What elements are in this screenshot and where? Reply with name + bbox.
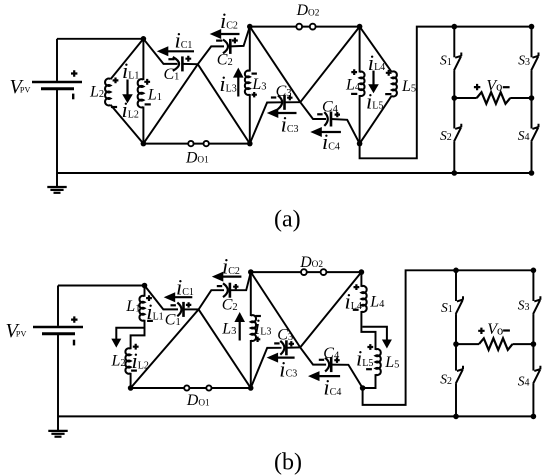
label + of C1 (b) — [186, 302, 191, 307]
inductor L3 (b) — [251, 315, 256, 341]
node T2b — [248, 269, 254, 275]
label + of Vo — [474, 84, 480, 90]
label - of C3 — [271, 96, 276, 98]
wire T3b to node Mb — [300, 272, 361, 347]
source VPV battery (b) — [33, 326, 83, 329]
wire L3 to B2b (b) — [250, 340, 252, 388]
node bridge top left — [452, 24, 458, 30]
ground — [47, 186, 66, 188]
current arrow iC4 — [320, 131, 341, 133]
label - of C1 — [168, 58, 174, 60]
switch S3 (b) — [533, 296, 540, 314]
node T1b — [142, 283, 148, 289]
wire T2 to L3 — [249, 27, 251, 72]
node bridge top right (b) — [531, 268, 537, 274]
wire B1b to C2 (b) — [131, 290, 224, 388]
inductor L4 — [360, 72, 365, 96]
node T3 — [357, 24, 363, 30]
switch S4 — [531, 124, 538, 142]
label + of C2 — [232, 38, 238, 44]
wire L1 to L2 step (b) — [131, 320, 145, 349]
current arrow iC1 (b) — [174, 296, 193, 298]
label + of L5 — [386, 70, 392, 76]
wire T3 to L5 top — [360, 27, 392, 73]
wire bottom rail (a) — [57, 172, 532, 174]
label + of C2 (b) — [233, 284, 238, 289]
resistor Vo load (b) — [479, 338, 513, 350]
current arrow iC3 — [277, 112, 297, 114]
switch S2 lower lead (b) — [455, 384, 457, 417]
wire C3 to Mb (b) — [286, 346, 300, 348]
current arrow iL3 — [237, 76, 239, 96]
diode Do2 contacts (b) — [301, 269, 307, 275]
wire mid rail right — [510, 97, 531, 99]
switch S2 upper lead (b) — [455, 344, 457, 371]
label + of C4 (b) — [334, 358, 339, 363]
label - of L2 (b) — [131, 370, 137, 372]
label - of L1 — [145, 103, 151, 105]
label + of C3 — [287, 95, 292, 100]
capacitor C4 (b) — [325, 358, 329, 372]
switch S2 (b) — [456, 366, 463, 384]
node mid rail right — [529, 95, 535, 101]
label + of L3 — [252, 92, 257, 97]
switch S4 upper lead (b) — [532, 344, 534, 371]
wire mid rail left — [454, 97, 476, 99]
wire B1b to B2b through diode Do1 (b) — [131, 387, 251, 389]
label - of C2 (b) — [217, 285, 222, 287]
node B3b — [360, 385, 366, 391]
inductor L5 (b) — [376, 349, 381, 375]
node mid rail right (b) — [531, 341, 537, 347]
label + of L3 (b) — [255, 337, 260, 342]
label + of VPV (b) — [71, 316, 77, 322]
ground (b) — [48, 430, 67, 432]
node B2b — [248, 385, 254, 391]
wire L4 to L5 step (b) — [361, 311, 375, 350]
circuit (a) input wire from Vpv to node T1 — [57, 38, 143, 40]
capacitor C3 — [278, 95, 282, 109]
wire Vpv positive lead — [56, 39, 58, 81]
current arrow iC1 — [167, 50, 194, 52]
label - of VPV — [72, 94, 74, 100]
inductor L1 (b) — [139, 296, 144, 321]
current arrow iC2 (b) — [222, 276, 242, 278]
label - of L4 — [351, 93, 357, 95]
wire T1 to L1 — [142, 39, 144, 80]
wire T1b to L1 (b) — [144, 286, 146, 297]
wire T1 to L2 top — [111, 39, 144, 80]
circuit (b) input wire from Vpv to node T1b — [58, 285, 145, 287]
label + of C1 — [185, 56, 191, 62]
capacitor C2 (b) — [223, 283, 228, 297]
wire L3 to B2 — [249, 94, 251, 144]
label - of C4 (b) — [319, 359, 324, 361]
node T2 — [247, 24, 253, 30]
switch S4 upper lead — [531, 98, 533, 129]
resistor Vo load — [477, 92, 511, 104]
wire T3b to L4 (b) — [360, 272, 362, 287]
switch S3 lower lead (b) — [532, 314, 534, 344]
inductor L2 — [105, 79, 110, 106]
switch S3 lower lead — [531, 70, 533, 98]
wire L2 bottom to B1 — [111, 105, 144, 144]
wire B1 to C2 (through X1) — [143, 46, 224, 143]
switch S4 (b) — [533, 366, 540, 384]
label + of L4 — [351, 69, 357, 75]
wire B3b to H-bridge feed (b) — [363, 270, 534, 405]
inductor L2 (b) — [125, 348, 130, 373]
label - of L3 (b) — [256, 315, 261, 317]
label - of L5 (b) — [366, 368, 372, 370]
switch S1 lower lead — [453, 70, 455, 98]
wire B2b to C3 (b) — [251, 348, 282, 388]
current arrow iC4 (b) — [318, 375, 340, 377]
current arrow iL4-L5 (b) — [362, 327, 387, 341]
node mid rail left — [452, 95, 458, 101]
label - of VPV (b) — [73, 340, 75, 346]
wire C2 to T2 — [230, 27, 250, 47]
wire C1 to node X1 — [182, 63, 197, 65]
label - of L4 (b) — [353, 309, 359, 311]
label + of Vo (b) — [478, 328, 484, 334]
node B3 — [357, 141, 363, 147]
current arrow iC3 (b) — [277, 357, 295, 359]
switch S1 — [454, 53, 461, 71]
label + of L1 — [144, 79, 150, 85]
label - of C2 — [216, 39, 222, 41]
wire L4 to B3 — [359, 95, 361, 144]
switch S4 lower lead — [531, 142, 533, 173]
wire mid rail left (b) — [456, 343, 479, 345]
wire Vpv negative lead (b) — [57, 334, 59, 431]
switch S4 lower lead (b) — [532, 384, 534, 417]
inductor L5 — [392, 71, 397, 96]
switch S3 upper lead — [531, 27, 533, 58]
switch S1 (b) — [456, 296, 463, 314]
wire T2 to T3 through diode Do2 — [250, 26, 360, 28]
wire C4 to B3b (b) — [331, 365, 362, 388]
diode Do1 contacts — [188, 141, 193, 146]
node B2 — [247, 141, 253, 147]
switch S2 upper lead — [453, 98, 455, 129]
capacitor C4 — [324, 112, 328, 126]
wire B1 to B2 through diode Do1 — [143, 143, 249, 145]
node bottom rail left — [452, 170, 458, 176]
svg-text:Vo: Vo — [486, 77, 502, 94]
wire L2 to B1b — [130, 373, 132, 388]
wire bottom rail (b) — [58, 415, 533, 417]
inductor L3 — [245, 71, 250, 95]
node bridge top left (b) — [453, 268, 459, 274]
svg-text:(b): (b) — [274, 449, 302, 475]
label + of L2 (b) — [133, 344, 139, 350]
wire B3 to H-bridge feed — [360, 27, 532, 159]
diode Do2 contacts — [296, 24, 302, 30]
wire T2b to L3 (b) — [250, 272, 252, 316]
label - of L5 — [385, 93, 391, 95]
label - of Vo (b) — [503, 329, 510, 331]
switch S3 — [531, 53, 538, 71]
label + of C3 (b) — [289, 341, 294, 346]
wire Vpv positive lead (b) — [57, 286, 59, 326]
wire T3 to L4 — [359, 27, 361, 73]
wire Mb to C4 (b) — [300, 347, 326, 364]
wire T2b to node Mb — [251, 272, 300, 347]
source VPV battery — [32, 81, 82, 84]
current arrow iL1 — [126, 80, 128, 96]
label - of L3 — [252, 72, 257, 74]
label - of C3 (b) — [274, 342, 279, 344]
current arrow iC2 — [220, 33, 240, 35]
wire T2b to T3b through diode Do2 (b) — [251, 271, 362, 273]
wire C1 to X1b — [184, 308, 199, 310]
wire T2 to node M — [250, 27, 300, 103]
capacitor C1 — [173, 57, 179, 71]
wire X1b to B2b (b) — [199, 309, 251, 388]
wire C3 to M — [285, 101, 301, 103]
label + of VPV — [71, 70, 77, 76]
wire M to C4 — [300, 102, 326, 119]
wire L5 to B3b (b) — [363, 374, 376, 388]
capacitor C3 (b) — [280, 341, 284, 355]
wire T1b to C1 (b) — [145, 286, 179, 310]
current arrow iL4 — [372, 71, 374, 86]
current arrow iL1-L2 (b) — [116, 328, 144, 340]
svg-text:Vo: Vo — [487, 321, 503, 338]
wire C2 to T2b (b) — [230, 272, 251, 290]
label + of L5 (b) — [367, 344, 373, 350]
label - of Vo — [503, 86, 510, 88]
switch S1 upper lead — [453, 27, 455, 58]
node bottom rail right — [529, 170, 535, 176]
diode Do1 contacts (b) — [184, 385, 189, 390]
wire T3 to node M — [300, 27, 359, 103]
wire X1 to B2 — [198, 64, 250, 143]
inductor L4 (b) — [361, 286, 366, 312]
wire T1 to C1 — [143, 39, 177, 64]
node B1b — [128, 385, 134, 391]
node B1 — [141, 141, 147, 147]
inductor L1 — [138, 79, 144, 107]
wire L1 to B1 — [142, 107, 144, 144]
wire mid rail right (b) — [513, 343, 534, 345]
label + of L4 (b) — [354, 284, 360, 290]
switch S2 lower lead — [453, 142, 455, 173]
capacitor C1 (b) — [177, 303, 181, 317]
wire B2 to C3 — [250, 102, 282, 143]
svg-text:(a): (a) — [274, 207, 301, 233]
label - of L2 — [111, 106, 117, 108]
node T1 — [141, 36, 147, 42]
wire C4 to B3 — [331, 119, 360, 144]
node bottom rail right (b) — [531, 414, 537, 420]
switch S1 lower lead (b) — [455, 314, 457, 344]
label - of C4 — [317, 113, 322, 115]
wire Vpv negative lead — [56, 89, 58, 187]
node T3b — [359, 269, 365, 275]
current arrow iL3 (b) — [239, 321, 241, 341]
wire L5 bottom to B3 — [360, 96, 392, 144]
label + of L1 (b) — [146, 295, 152, 301]
switch S3 upper lead (b) — [532, 270, 534, 301]
switch S1 upper lead (b) — [455, 270, 457, 301]
node bridge top right — [529, 24, 535, 30]
label + of C4 — [335, 112, 340, 117]
capacitor C2 — [223, 40, 228, 54]
switch S2 — [454, 124, 461, 142]
label - of C1 (b) — [171, 304, 176, 306]
label + of L2 — [113, 78, 119, 84]
node mid rail left (b) — [453, 341, 459, 347]
label - of L1 (b) — [147, 320, 153, 322]
node bottom rail left (b) — [453, 414, 459, 420]
